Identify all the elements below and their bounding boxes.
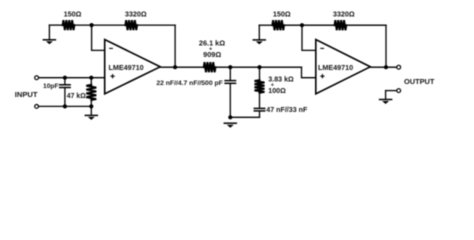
node bottom tee junction (caps to ground) <box>228 115 232 119</box>
resistor 3320Ω (stage 2 feedback) <box>335 20 347 30</box>
wire feedback vertical (stage 2) <box>385 25 387 67</box>
wire R150 to node B (stage 2) <box>284 24 335 26</box>
resistor 3.83 kΩ + 100Ω (shunt) <box>255 67 265 108</box>
svg-text:INPUT: INPUT <box>15 90 38 99</box>
wire jog to stage 2 non-inverting input <box>302 67 316 78</box>
svg-text:3320Ω: 3320Ω <box>333 10 355 19</box>
resistor 150Ω (stage 2) <box>272 20 284 30</box>
wire input to non-inverting input (stage 1) <box>39 77 105 79</box>
resistor 3320Ω (stage 1 feedback) <box>125 20 137 30</box>
node U2 output / feedback junction <box>384 65 388 69</box>
ground (stage 2 input, top) <box>253 25 265 44</box>
wire output bottom to ground <box>386 90 397 92</box>
wire 3320Ω to feedback corner (stage 2) <box>346 24 386 26</box>
wire node B down to inverting input (stage 2) <box>302 25 316 50</box>
wire feedback vertical (stage 1) <box>174 25 176 67</box>
svg-text:150Ω: 150Ω <box>273 10 291 19</box>
resistor 909Ω (interstage series) <box>204 62 216 72</box>
pin + (stage 2 non-inverting) <box>321 75 324 78</box>
svg-text:100Ω: 100Ω <box>268 87 286 95</box>
wire 909Ω to stage 2 <box>215 66 301 68</box>
wire R150 to node A (stage 1) <box>74 24 125 26</box>
node resistor 47k top junction <box>89 76 93 80</box>
capacitor 10pF <box>60 78 70 107</box>
wire input bottom rail <box>39 105 92 107</box>
ground (input bottom rail) <box>85 106 97 120</box>
capacitor 22 nF//4.7 nF//500 pF <box>225 67 235 117</box>
svg-text:10pF: 10pF <box>43 83 59 90</box>
svg-text:47 kΩ: 47 kΩ <box>67 93 86 100</box>
svg-text:22 nF//4.7 nF//500 pF: 22 nF//4.7 nF//500 pF <box>156 80 222 87</box>
node capacitor 500pF top junction <box>228 65 232 69</box>
pin + (stage 1 non-inverting) <box>111 75 114 78</box>
capacitor 47 nF//33 nF <box>254 108 264 117</box>
svg-text:150Ω: 150Ω <box>64 10 82 19</box>
node U1 output / feedback junction <box>173 65 177 69</box>
op-amp U2 LME49710 (stage 2) <box>316 40 371 94</box>
wire ground to R 150 (stage 2) <box>259 24 272 26</box>
ground (stage 1 input, top-left) <box>43 25 55 44</box>
ground (output return) <box>380 91 392 104</box>
svg-text:LME49710: LME49710 <box>109 63 144 72</box>
node B junction (stage 2 summing node) <box>300 23 304 27</box>
svg-text:47 nF//33 nF: 47 nF//33 nF <box>266 106 308 114</box>
terminal INPUT top <box>35 76 39 80</box>
svg-text:LME49710: LME49710 <box>318 63 353 72</box>
resistor 150Ω (stage 1) <box>63 20 75 30</box>
wire op-amp U1 output rail <box>160 66 204 68</box>
wire 47nF cap bottom rail <box>230 116 259 118</box>
wire 3320Ω to feedback corner (stage 1) <box>137 24 175 26</box>
svg-text:3320Ω: 3320Ω <box>125 10 147 19</box>
terminal OUTPUT top <box>397 65 401 69</box>
node resistor 3.83k top junction <box>257 65 261 69</box>
pin - (stage 2 inverting) <box>321 47 324 49</box>
node A junction (stage 1 summing node) <box>90 23 94 27</box>
terminal INPUT bottom <box>35 105 39 109</box>
node capacitor 10pF top junction <box>63 76 67 80</box>
svg-text:909Ω: 909Ω <box>203 50 221 59</box>
svg-text:OUTPUT: OUTPUT <box>404 77 435 86</box>
wire op-amp U2 output <box>370 66 397 68</box>
node capacitor 10pF bottom junction <box>63 104 67 108</box>
wire node A down to inverting input (stage 1) <box>92 25 105 50</box>
resistor 47 kΩ (input termination) <box>86 78 96 107</box>
node resistor 47k bottom junction <box>89 104 93 108</box>
ground (interstage caps) <box>224 123 236 128</box>
wire ground to R 150 (stage 1) <box>49 24 62 26</box>
op-amp U1 LME49710 (stage 1) <box>105 40 161 94</box>
terminal OUTPUT bottom <box>397 89 401 93</box>
pin - (stage 1 inverting) <box>110 47 113 49</box>
